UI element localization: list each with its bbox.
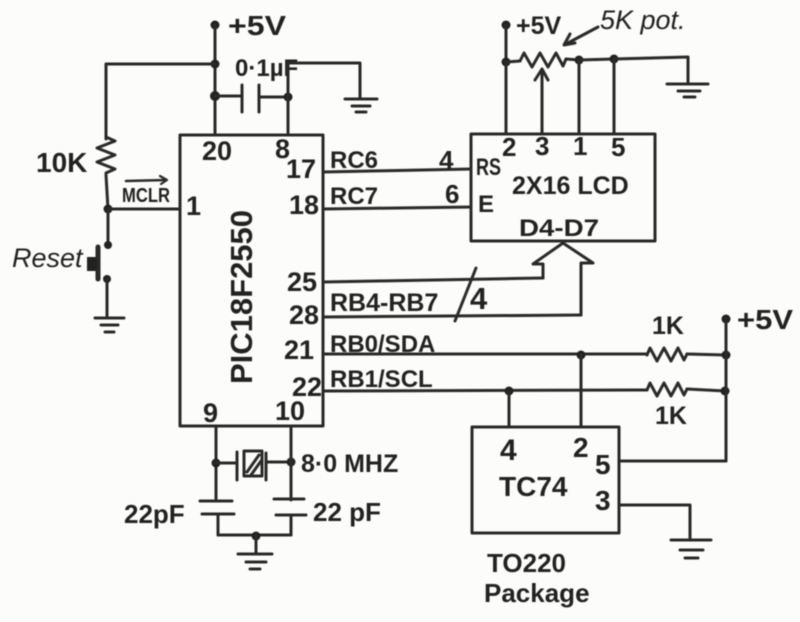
resistor R3 1K (SCL pullup) [647, 383, 687, 396]
svg-text:1K: 1K [652, 312, 684, 340]
wire RB1/SCL (pin 22 to pullup) [323, 390, 647, 391]
svg-text:RC7: RC7 [330, 183, 378, 210]
wire TC74 pin 3 to ground [619, 505, 690, 539]
wire TC74 pin 4 to SCL [508, 391, 511, 427]
svg-text:1K: 1K [655, 402, 687, 430]
wire MCLR to PIC pin 1 [108, 208, 180, 211]
junction dot SDA at +5V rail [722, 351, 731, 360]
svg-text:25: 25 [287, 267, 317, 297]
junction dot TC74 pin2 on SDA [577, 351, 586, 360]
svg-text:21: 21 [284, 335, 314, 365]
capacitor C2 22pF (left) [200, 501, 234, 514]
wire crystal left [216, 462, 237, 465]
resistor R1 10K [97, 137, 115, 173]
wire PIC pin 10 to crystal and C3 [290, 426, 293, 500]
capacitor C3 22pF (right) [274, 499, 306, 515]
wire reset switch to ground [106, 279, 109, 317]
node +5V (top left) [211, 21, 220, 30]
resistor R2 1K (SDA pullup) [647, 348, 687, 361]
potentiometer R4 5K [506, 53, 579, 67]
wire 10K to MCLR node [106, 175, 108, 209]
svg-text:1: 1 [186, 191, 201, 221]
node +5V (pot) [502, 21, 511, 30]
svg-text:2: 2 [573, 432, 589, 463]
switch SW1 reset pushbutton [87, 241, 112, 283]
wire capacitor node to PIC pin 8 [287, 97, 290, 135]
wire RB0/SDA (pin 21 to pullup) [323, 353, 647, 356]
svg-text:RS: RS [476, 154, 501, 181]
svg-text:RB4-RB7: RB4-RB7 [330, 289, 438, 317]
svg-text:3: 3 [595, 485, 611, 516]
svg-text:Package: Package [484, 578, 590, 608]
wire MCLR node to reset switch [107, 209, 110, 245]
bus slash on pin 25 wire [455, 268, 476, 321]
svg-text:TC74: TC74 [499, 471, 568, 502]
wire LCD pin 1 [578, 60, 581, 134]
svg-text:+5V: +5V [516, 12, 562, 40]
wire RB4 bus (pin 25 to arrow) [323, 278, 543, 282]
svg-text:D4-D7: D4-D7 [519, 215, 599, 242]
IC U2 2x16 LCD body [471, 134, 655, 241]
svg-text:Reset: Reset [12, 243, 84, 273]
svg-text:28: 28 [289, 300, 319, 330]
svg-text:+5V: +5V [737, 304, 793, 335]
junction dot pot right 2 [610, 55, 619, 64]
wire RB7 bus (pin 28 to arrow) [323, 315, 581, 317]
svg-text:PIC18F2550: PIC18F2550 [224, 210, 259, 384]
wire capacitor right plate to node [259, 96, 288, 99]
ground (below TC74) [671, 540, 711, 558]
node +5V (right) [722, 315, 731, 324]
svg-text:3: 3 [535, 131, 549, 161]
ground (top, right of capacitor) [345, 99, 377, 112]
wire pot to LCD pin area [579, 59, 614, 60]
wire crystal right [266, 461, 291, 464]
svg-text:18: 18 [289, 190, 319, 220]
junction dot ground bus [252, 532, 261, 541]
svg-text:2: 2 [502, 132, 516, 162]
svg-text:10K: 10K [36, 147, 87, 178]
wire C2 to ground bus [217, 514, 220, 535]
ground (below crystal) [238, 554, 272, 569]
junction dot at capacitor right [284, 93, 293, 102]
ground (top right of pot) [667, 84, 708, 97]
svg-text:6: 6 [445, 179, 459, 209]
svg-text:+5V: +5V [228, 10, 286, 41]
node MCLR junction [104, 205, 113, 214]
svg-text:RB0/SDA: RB0/SDA [330, 331, 435, 358]
svg-text:8·0 MHZ: 8·0 MHZ [301, 450, 398, 478]
wire ground bus to ground [255, 535, 258, 553]
svg-text:RC6: RC6 [330, 147, 378, 174]
wire RC7 (pin 18 to LCD E) [323, 207, 471, 209]
svg-text:MCLR: MCLR [122, 185, 170, 207]
wire LCD pin 5 [613, 59, 616, 134]
wire R2 to +5V rail [687, 354, 726, 355]
svg-text:RB1/SCL: RB1/SCL [330, 366, 433, 393]
junction dot crystal left [212, 459, 221, 468]
capacitor C1 0.1uF [242, 85, 259, 112]
crystal Y1 8.0 MHz [237, 451, 266, 480]
wire capacitor node to ground (top) [288, 63, 360, 98]
wire +5V right rail down [725, 319, 728, 461]
wire PIC pin 9 to crystal and C2 [215, 426, 218, 500]
svg-text:5: 5 [611, 132, 625, 162]
wire LCD pin 2 [505, 62, 508, 134]
svg-text:22 pF: 22 pF [313, 497, 381, 527]
svg-text:TO220: TO220 [487, 548, 566, 578]
svg-text:4: 4 [500, 434, 517, 467]
wire R3 to +5V rail [687, 389, 725, 391]
wire RC6 (pin 17 to LCD RS) [323, 169, 471, 172]
wire ground bus [218, 534, 291, 537]
junction dot SCL at +5V rail [721, 387, 730, 396]
svg-text:10: 10 [275, 396, 305, 426]
wire TC74 pin 2 to SDA [580, 355, 583, 427]
wire C3 to ground bus [290, 515, 293, 535]
IC U3 TC74 body [472, 427, 619, 533]
svg-text:4: 4 [439, 145, 454, 175]
svg-text:4: 4 [470, 281, 488, 316]
svg-text:20: 20 [202, 136, 232, 166]
junction dot pot left [502, 58, 511, 67]
svg-text:17: 17 [286, 154, 316, 184]
svg-text:2X16 LCD: 2X16 LCD [512, 172, 629, 200]
IC U1 PIC18F2550 body [180, 135, 323, 426]
annotation arrow to pot [564, 27, 598, 45]
svg-text:E: E [478, 191, 494, 218]
wire +5V to pot [505, 25, 508, 62]
wire rail to TC74 pin 5 [619, 460, 726, 463]
wire +5V rail to 10K resistor [106, 64, 215, 139]
svg-text:22pF: 22pF [124, 499, 185, 529]
junction dot at +5V rail branch [211, 60, 220, 69]
wire to capacitor C1 left plate [215, 95, 242, 98]
svg-text:5: 5 [595, 449, 611, 480]
svg-text:1: 1 [573, 131, 587, 161]
svg-text:9: 9 [203, 398, 218, 428]
junction dot pot right 1 [575, 56, 584, 65]
label MCLR with overline arrow [122, 176, 170, 207]
svg-text:5K pot.: 5K pot. [600, 5, 686, 35]
pot wiper arrow [535, 69, 548, 134]
junction dot crystal right [287, 458, 296, 467]
bus arrow to LCD D4-D7 [533, 243, 593, 315]
ground (below reset switch) [95, 318, 124, 332]
junction dot at capacitor left [210, 91, 220, 101]
junction dot TC74 pin4 on SCL [505, 387, 514, 396]
wire pot right to ground [614, 57, 688, 83]
wire +5V rail down to PIC pin 20 [214, 25, 217, 135]
